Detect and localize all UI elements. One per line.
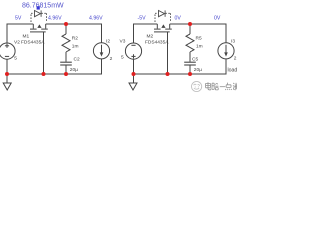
- svg-text:load: load: [228, 67, 238, 73]
- svg-text:2: 2: [234, 56, 237, 62]
- capacitor C2: [60, 62, 72, 74]
- svg-text:FDS4435A: FDS4435A: [145, 40, 169, 46]
- ground right: [129, 74, 137, 90]
- wire M1 drain to I2 top: [46, 24, 102, 43]
- voltage source V3: [125, 43, 141, 59]
- capacitor C5: [184, 62, 196, 74]
- svg-text:20µ: 20µ: [70, 67, 78, 73]
- ground left: [3, 74, 11, 90]
- glyph 通: [233, 83, 237, 90]
- svg-text:1m: 1m: [196, 44, 203, 50]
- svg-text:86.76815mW: 86.76815mW: [22, 3, 64, 10]
- resistor R2: [62, 24, 70, 62]
- glyph 点: [225, 83, 231, 90]
- transistor M2 (PMOS FDS4435A): [154, 24, 172, 32]
- wire V3 top lead and top rail right: [134, 24, 158, 43]
- svg-text:M2: M2: [147, 33, 154, 39]
- glyph 一: [220, 86, 226, 88]
- transistor M2 arrow: [161, 24, 165, 28]
- diode body diode of M2 (dashed): [155, 10, 171, 22]
- svg-text:5: 5: [14, 56, 17, 62]
- svg-text:0V: 0V: [175, 15, 182, 21]
- voltage source V2: [0, 43, 15, 59]
- svg-text:20µ: 20µ: [194, 67, 202, 73]
- svg-text:I2: I2: [106, 38, 110, 44]
- svg-text:4.96V: 4.96V: [48, 15, 62, 21]
- wire V2 top lead and top rail left: [7, 24, 33, 43]
- glyph 路: [212, 83, 218, 90]
- svg-text:5: 5: [121, 55, 124, 61]
- svg-text:C5: C5: [192, 57, 198, 63]
- svg-text:4.96V: 4.96V: [89, 15, 103, 21]
- current source I3: [218, 43, 234, 59]
- current source I2: [93, 43, 109, 59]
- transistor M1 (PMOS FDS4435A): [30, 24, 48, 32]
- watermark logo circle: [192, 81, 202, 91]
- wire V2 bottom lead / left ground rail to I2: [7, 59, 102, 74]
- wire M2 gate to ground rail: [167, 32, 169, 74]
- svg-text:V2: V2: [14, 39, 20, 45]
- svg-text:C2: C2: [74, 57, 80, 63]
- svg-text:2: 2: [110, 56, 113, 62]
- diode body diode of M1 (dashed): [31, 10, 47, 22]
- glyph 电: [206, 82, 211, 90]
- watermark text 电路一点通 (stylized): [206, 82, 237, 90]
- svg-text:0V: 0V: [214, 16, 221, 22]
- svg-text:M1: M1: [23, 33, 30, 39]
- svg-text:1m: 1m: [72, 44, 79, 50]
- wire M2 drain to I3 top: [170, 24, 226, 43]
- svg-text:-5V: -5V: [138, 15, 147, 21]
- wire V3 bottom lead / right ground rail to I3: [134, 59, 227, 74]
- svg-text:R5: R5: [196, 36, 202, 42]
- svg-text:5V: 5V: [15, 15, 22, 21]
- svg-text:V3: V3: [120, 38, 126, 44]
- svg-text:I3: I3: [231, 38, 235, 44]
- svg-text:FDS4435A: FDS4435A: [21, 40, 45, 46]
- transistor M1 arrow: [37, 24, 41, 28]
- svg-text:R2: R2: [72, 36, 78, 42]
- wire M1 gate to ground rail: [43, 32, 45, 74]
- node junction dots (red): [5, 22, 192, 76]
- resistor R5: [186, 24, 194, 62]
